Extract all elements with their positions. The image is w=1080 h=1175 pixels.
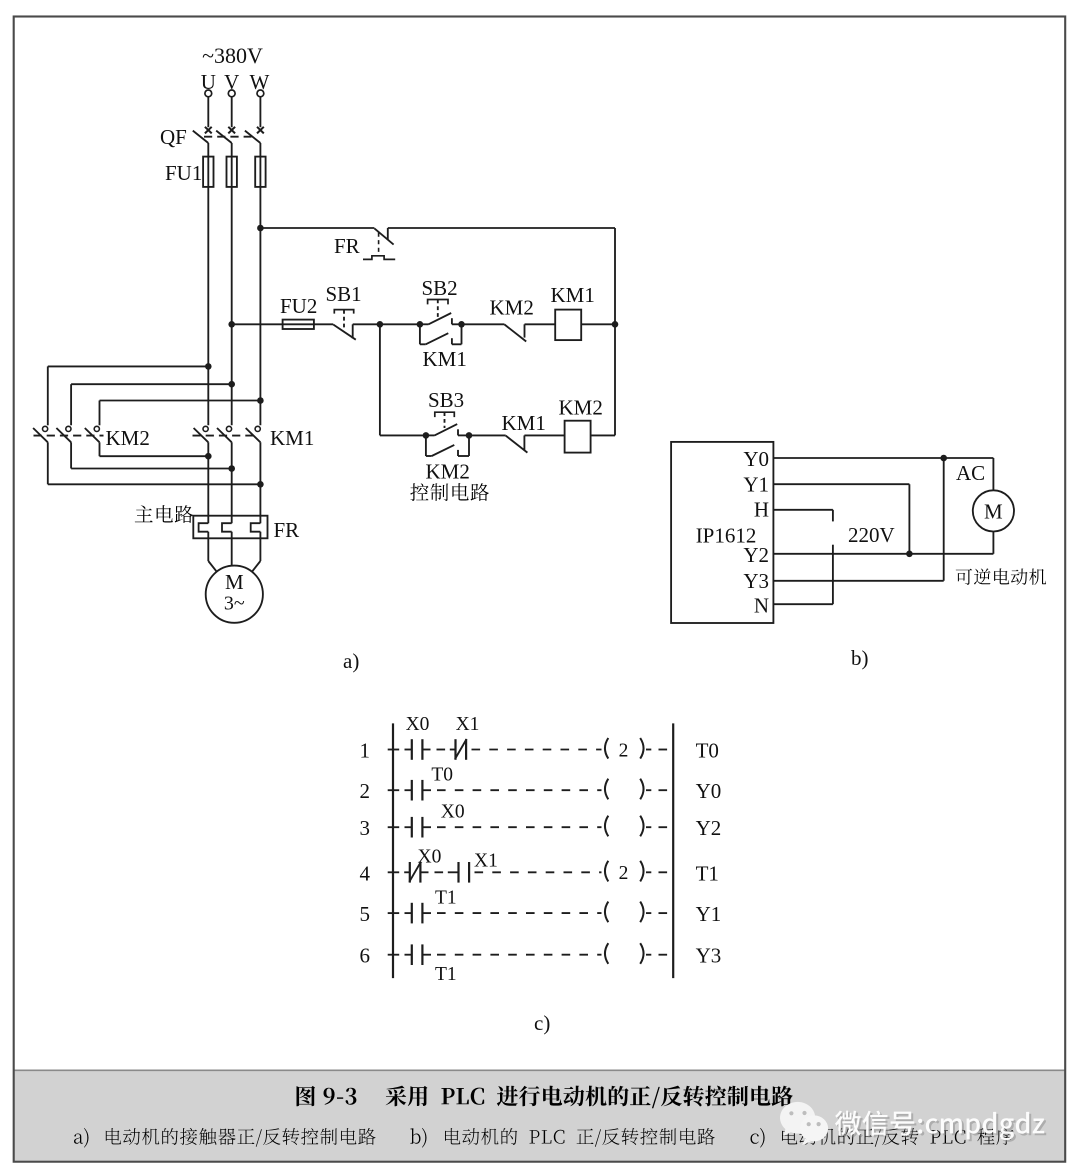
wire phase U vertical QF to KM1 contact: [207, 143, 209, 425]
node crossover L2 top: [228, 381, 235, 388]
wire U terminal to QF: [207, 97, 209, 127]
contactor KM2 main contact pole 1: [33, 426, 48, 442]
svg-text:5: 5: [360, 902, 371, 926]
thermal relay FR heater box: [193, 516, 267, 539]
thermal relay FR label: [274, 518, 300, 542]
contactor KM1 linkage (dashed): [193, 435, 254, 437]
ladder contact X0 label rung 3: [441, 802, 465, 823]
ladder contact T0 (NO) rung 2: [412, 780, 423, 801]
ladder rung 2 wire (dashed): [388, 789, 669, 791]
ladder contact T0 label rung 2: [431, 765, 453, 786]
contactor KM1 main contact pole 1: [194, 426, 209, 442]
node SB3 right: [466, 432, 473, 439]
ladder rung 4 wire (dashed): [388, 871, 669, 873]
ladder rung 6 number: [360, 944, 371, 968]
svg-text:N: N: [754, 594, 769, 618]
contactor KM1 auxiliary contact label: [423, 347, 467, 371]
ladder timer coil T0 rung 1 with constant 2: [605, 738, 651, 761]
ladder contact X0 (NO) rung 1: [412, 739, 423, 760]
ladder output label T1 rung 4: [696, 861, 719, 885]
svg-text:Y1: Y1: [743, 473, 769, 497]
pushbutton SB1 label: [326, 282, 362, 306]
ladder right power rail: [672, 723, 674, 978]
contactor coil KM2 label: [559, 396, 603, 420]
contactor KM2 main label: [106, 426, 150, 450]
svg-text:1: 1: [360, 739, 371, 763]
crossover wire KM2 pole2 bottom to L2: [71, 442, 232, 468]
svg-text:FR: FR: [334, 234, 360, 258]
main circuit caption 主电路: [135, 505, 193, 523]
ladder rung 4 number: [360, 861, 371, 885]
crossover wire L2 to KM2 pole2 top: [71, 384, 232, 425]
ladder rung 3 number: [360, 816, 371, 840]
svg-text:~380V: ~380V: [202, 43, 263, 68]
svg-text:T0: T0: [696, 739, 719, 763]
ladder output coil rung 6: [605, 943, 651, 964]
svg-text:220V: 220V: [848, 523, 895, 547]
wire Y2 output: [773, 532, 993, 554]
source label 220V: [848, 523, 895, 547]
contactor KM2 main contact pole 2: [56, 426, 71, 442]
svg-text:T1: T1: [435, 964, 457, 985]
wire Y1 output: [773, 484, 909, 554]
wire right vertical control circuit: [614, 228, 616, 435]
wire N terminal to 220V source: [773, 545, 833, 605]
svg-text:KM2: KM2: [426, 460, 470, 484]
figure title 图 9-3 采用 PLC 进行电动机的正/反转控制电路: [297, 1086, 316, 1106]
contactor KM1 interlock label: [502, 411, 546, 435]
svg-text:X1: X1: [474, 851, 498, 872]
contactor KM1 main contact pole 2: [217, 426, 232, 442]
wire FR heater to motor (W): [252, 532, 260, 572]
wire Y3 output: [773, 458, 943, 581]
start pushbutton SB3 (NO): [426, 412, 469, 435]
PLC pin label Y2: [743, 543, 769, 567]
stop pushbutton SB1 (NC): [333, 310, 356, 340]
wire phase U KM1 contact to FR heater: [207, 442, 209, 523]
ladder contact X1 label rung 4: [474, 851, 498, 872]
PLC pin label Y1: [743, 473, 769, 497]
svg-text:Y2: Y2: [743, 543, 769, 567]
svg-text:Y2: Y2: [696, 816, 722, 840]
ladder timer coil T1 rung 4 with constant 2: [605, 861, 651, 884]
contactor KM2 linkage (dashed): [34, 435, 104, 437]
pushbutton SB3 label: [428, 388, 464, 412]
node crossover L1 bottom: [205, 453, 212, 460]
ladder rung 5 wire (dashed): [388, 912, 669, 914]
ladder rung 6 wire (dashed): [388, 954, 669, 956]
power supply label ~380V: [202, 43, 263, 68]
motor M 3~: [206, 566, 263, 623]
svg-text:KM1: KM1: [270, 426, 314, 450]
svg-text:KM2: KM2: [106, 426, 150, 450]
svg-text:AC: AC: [956, 461, 985, 485]
caption band: [15, 1070, 1065, 1160]
circuit breaker QF pole 2 (phase V): [216, 127, 235, 143]
wire FR heater to motor (U): [208, 532, 216, 572]
svg-text:2: 2: [360, 779, 371, 803]
svg-text:FU1: FU1: [165, 161, 202, 185]
start pushbutton SB2 (NO): [420, 300, 462, 325]
fuse FU1 element phase U: [203, 157, 213, 187]
ladder contact X1 (NO) rung 4: [459, 862, 470, 883]
ladder rung 3 wire (dashed): [388, 826, 669, 828]
wire FR to right vertical: [388, 227, 615, 229]
wire W terminal to QF: [259, 97, 261, 127]
wire KM1 coil to right vertical: [581, 323, 615, 325]
thermal relay FR contact label: [334, 234, 360, 258]
ladder contact X1 label rung 1: [456, 714, 480, 735]
PLC pin label Y3: [743, 569, 769, 593]
svg-text:X0: X0: [418, 847, 442, 868]
ladder output coil rung 5: [605, 902, 651, 923]
node V to control rung 1: [228, 321, 235, 328]
crossover wire L3 to KM2 pole3 top: [100, 401, 261, 426]
svg-text:6: 6: [360, 944, 371, 968]
svg-text:KM2: KM2: [490, 296, 534, 320]
wire V terminal to QF: [231, 97, 233, 127]
svg-text:T0: T0: [431, 765, 453, 786]
watermark wechat logo: [780, 1102, 828, 1145]
node Y0-Y3 junction: [940, 455, 947, 462]
ladder contact X0 label rung 1: [406, 714, 430, 735]
contactor KM2 main contact pole 3: [85, 426, 100, 442]
PLC pin label N: [754, 594, 769, 618]
svg-text:KM2: KM2: [559, 396, 603, 420]
contactor coil KM1: [555, 310, 581, 341]
wire phase W KM1 contact to FR heater: [259, 442, 261, 523]
svg-text:b): b): [851, 646, 869, 670]
wire phase V vertical QF to KM1 contact: [231, 143, 233, 425]
svg-text:FR: FR: [274, 518, 300, 542]
PLC pin label Y0: [743, 447, 769, 471]
caption line a b c: [74, 1128, 89, 1148]
node crossover L2 bottom: [228, 465, 235, 472]
node SB3 left: [423, 432, 430, 439]
svg-text:QF: QF: [160, 125, 187, 149]
pushbutton SB2 label: [422, 276, 458, 300]
wire KM2 coil to right vertical: [591, 434, 615, 436]
node W to control circuit: [257, 225, 264, 232]
ladder contact X0 label rung 4: [418, 847, 442, 868]
crossover wire L1 to KM2 pole1 top: [48, 366, 209, 425]
watermark text 微信号 cmpdgdz: [837, 1112, 1046, 1142]
ladder contact T1 (NO) rung 5: [412, 903, 423, 924]
svg-text:H: H: [754, 498, 769, 522]
motor M reversible: [973, 490, 1014, 531]
reversible motor caption 可逆电动机: [956, 568, 1046, 585]
ladder output label Y1 rung 5: [696, 902, 722, 926]
svg-text:T1: T1: [435, 888, 457, 909]
wire phase V KM1 contact to FR heater: [231, 442, 233, 523]
ladder contact T1 label rung 5: [435, 888, 457, 909]
thermal relay FR heater element phase W: [251, 523, 261, 532]
node Y1 to Y2 line: [906, 551, 913, 558]
svg-text:X0: X0: [406, 714, 430, 735]
node SB2 right: [458, 321, 465, 328]
svg-text:Y3: Y3: [696, 944, 722, 968]
contactor KM1 main label: [270, 426, 314, 450]
svg-text:KM1: KM1: [551, 283, 595, 307]
wire Y0 output: [773, 458, 993, 490]
PLC pin label H: [754, 498, 769, 522]
contactor KM1 main contact pole 3: [246, 426, 261, 442]
wire KM2 interlock to KM1 coil: [525, 323, 556, 325]
node crossover L1 top: [205, 363, 212, 370]
svg-text:Y1: Y1: [696, 902, 722, 926]
contactor KM1 auxiliary NO contact (seal-in): [420, 324, 462, 344]
node SB2 left: [417, 321, 424, 328]
thermal relay FR heater element phase U: [199, 523, 209, 532]
svg-text:SB1: SB1: [326, 282, 362, 306]
AC label: [956, 461, 985, 485]
thermal relay FR NC contact: [363, 228, 395, 259]
svg-text:M: M: [225, 570, 244, 594]
subfigure label b): [851, 646, 869, 670]
ladder output label T0 rung 1: [696, 739, 719, 763]
svg-text:M: M: [984, 500, 1003, 524]
svg-text:2: 2: [619, 740, 629, 761]
fuse FU1 element phase W: [255, 157, 265, 187]
circuit breaker QF linkage (dashed): [204, 136, 252, 138]
svg-text:X1: X1: [456, 714, 480, 735]
node rung1 branch to rung2: [377, 321, 384, 328]
node KM1 coil to right vertical: [612, 321, 619, 328]
wire SB1 to SB2: [353, 323, 420, 325]
subfigure label a): [343, 649, 359, 673]
svg-text:Y0: Y0: [696, 779, 722, 803]
ladder rung 1 number: [360, 739, 371, 763]
fuse FU1 label: [165, 161, 202, 185]
ladder contact X1 (NC) rung 1: [455, 739, 467, 760]
svg-text:4: 4: [360, 861, 371, 885]
ladder contact X0 (NC) rung 4: [409, 862, 421, 883]
circuit breaker QF pole 1 (phase U): [193, 127, 212, 143]
contactor KM2 auxiliary contact label: [426, 460, 470, 484]
ladder rung 2 number: [360, 779, 371, 803]
ladder left power rail: [392, 723, 394, 978]
wire SB3 to KM1 interlock: [469, 434, 506, 436]
contactor coil KM2: [565, 421, 591, 453]
wire rung1 from V line to FU2: [232, 323, 334, 325]
ladder rung 1 wire (dashed): [388, 749, 669, 751]
wire branch rung1 to rung2: [380, 324, 426, 435]
phase terminal labels U V W: [201, 70, 270, 94]
phase terminals U V W (circles): [205, 90, 264, 97]
wire phase W vertical QF to KM1 contact: [259, 143, 261, 425]
crossover wire KM2 pole3 bottom to L1: [100, 442, 209, 456]
node crossover L3 top: [257, 397, 264, 404]
ladder output coil rung 2: [605, 779, 651, 800]
contactor KM1 interlock NC contact: [506, 435, 528, 452]
circuit breaker QF label: [160, 125, 187, 149]
ladder output label Y3 rung 6: [696, 944, 722, 968]
node crossover L3 bottom: [257, 481, 264, 488]
thermal relay FR heater element phase V: [222, 523, 232, 532]
ladder output label Y0 rung 2: [696, 779, 722, 803]
svg-text:X0: X0: [441, 802, 465, 823]
wire FR heater to motor (V): [231, 532, 233, 566]
subfigure label c): [534, 1011, 550, 1035]
svg-text:c): c): [534, 1011, 550, 1035]
control circuit caption 控制电路: [410, 483, 489, 501]
wire control top from W line to FR: [260, 227, 374, 229]
wire KM1 interlock to KM2 coil: [524, 434, 564, 436]
ladder contact T1 (NO) rung 6: [412, 944, 423, 965]
svg-text:KM1: KM1: [423, 347, 467, 371]
ladder output coil rung 3: [605, 816, 651, 837]
ladder contact T1 label rung 6: [435, 964, 457, 985]
svg-text:3~: 3~: [224, 593, 245, 615]
svg-text:Y0: Y0: [743, 447, 769, 471]
ladder contact X0 (NO) rung 3: [412, 817, 423, 838]
contactor KM2 interlock label: [490, 296, 534, 320]
contactor KM2 auxiliary NO contact (seal-in): [426, 435, 469, 456]
ladder rung 5 number: [360, 902, 371, 926]
crossover wire KM2 pole1 bottom to L3: [48, 442, 261, 484]
svg-text:Y3: Y3: [743, 569, 769, 593]
svg-text:SB2: SB2: [422, 276, 458, 300]
contactor KM2 interlock NC contact: [505, 324, 527, 341]
wire H terminal to 220V source: [773, 510, 833, 522]
contactor coil KM1 label: [551, 283, 595, 307]
wire SB2 to KM2 interlock: [462, 323, 505, 325]
svg-text:3: 3: [360, 816, 371, 840]
svg-text:a): a): [343, 649, 359, 673]
ladder output label Y2 rung 3: [696, 816, 722, 840]
svg-text:FU2: FU2: [280, 294, 317, 318]
PLC model label IP1612: [696, 524, 757, 548]
fuse FU1 element phase V: [227, 157, 237, 187]
svg-text:2: 2: [619, 863, 629, 884]
PLC box IP1612: [671, 442, 773, 623]
svg-text:SB3: SB3: [428, 388, 464, 412]
svg-text:KM1: KM1: [502, 411, 546, 435]
svg-text:T1: T1: [696, 861, 719, 885]
fuse FU2: [283, 320, 314, 329]
fuse FU2 label: [280, 294, 317, 318]
circuit breaker QF pole 3 (phase W): [245, 127, 264, 143]
